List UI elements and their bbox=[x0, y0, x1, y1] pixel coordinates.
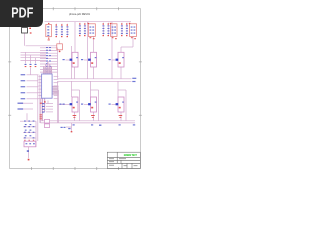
svg-text:PDF: PDF bbox=[11, 6, 33, 22]
svg-text:GREEN TEXT: GREEN TEXT bbox=[124, 153, 137, 157]
svg-text:phone-pcb REV01: phone-pcb REV01 bbox=[69, 12, 91, 16]
